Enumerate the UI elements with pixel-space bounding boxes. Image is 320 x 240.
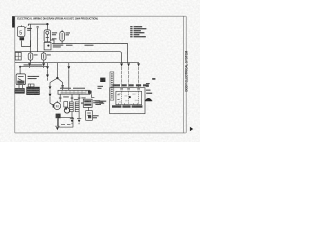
ECU pin label row <box>113 84 149 86</box>
motor M2 <box>64 108 69 113</box>
wire relay feed horizontal <box>20 67 47 74</box>
legend note text block <box>130 26 146 37</box>
label for R1 <box>52 32 57 39</box>
fuse F3 <box>41 52 46 63</box>
wire from A3 down <box>47 63 49 81</box>
wire hook from JB2 right <box>92 94 95 97</box>
wire vertical x30.5 <box>30 24 32 53</box>
connector arrow A8 <box>127 63 130 66</box>
wire center drop <box>56 63 58 78</box>
switch table S3 <box>75 102 79 112</box>
motor M1 <box>54 101 61 110</box>
connector blob under motor <box>56 114 61 119</box>
wire Y right branch <box>57 78 64 90</box>
wire from R1 right <box>51 40 54 44</box>
small wire labels in cluster <box>63 96 85 100</box>
label right of box <box>93 115 99 118</box>
wire vertical x37.6 with connector ticks <box>37 27 39 52</box>
title text <box>17 16 98 20</box>
ECU vertical label strip <box>110 72 114 100</box>
connector arrow A6a <box>49 86 52 89</box>
node dot in ECU <box>129 96 131 98</box>
label above relay feed wire <box>24 64 43 65</box>
label for S1 <box>27 28 32 31</box>
connector blob under S1 <box>20 37 25 40</box>
fuse F1 <box>60 30 65 44</box>
node junction dot <box>46 23 48 25</box>
relay R1 <box>44 30 51 42</box>
wire ECU drop 2 <box>128 67 130 88</box>
faint ECU internals <box>118 93 138 102</box>
connector ticks under R2 <box>19 85 23 89</box>
connector arrow A5 <box>67 66 70 69</box>
ECU pin marks <box>120 88 140 90</box>
wire H2 long horizontal <box>15 52 122 63</box>
wire H1 long horizontal <box>52 44 128 63</box>
ignition switch S1 <box>18 25 27 36</box>
connector arrow A1 <box>28 63 31 68</box>
scan grain overlay <box>0 0 200 142</box>
page frame border <box>15 16 186 133</box>
junction bar JB2 <box>58 90 90 94</box>
switch table S2 <box>69 102 73 112</box>
connector blob left of ECU <box>100 78 105 82</box>
junction block JB <box>15 52 21 60</box>
label for R2 <box>28 76 39 79</box>
small label F <box>152 78 155 80</box>
ground G1 <box>55 118 59 126</box>
ground blob GB1 <box>145 98 153 101</box>
connector arrow A9 <box>137 63 140 66</box>
fuse F2 <box>28 53 33 63</box>
box under D1 <box>86 107 93 120</box>
small switch box in cluster <box>64 102 68 107</box>
connector arrow A3 <box>46 66 49 69</box>
connector arrow A2 <box>42 63 45 68</box>
wire label left of ECU <box>99 101 106 104</box>
ECU inner wires <box>122 91 139 104</box>
connector arrow A7 <box>120 63 123 66</box>
ground G3 <box>70 112 74 119</box>
wire dot to relay R1 <box>46 24 48 30</box>
labels right of ECU <box>146 83 152 94</box>
label near hook <box>95 102 103 105</box>
connector arrow A6b <box>49 94 52 97</box>
ground G4 <box>77 112 81 119</box>
ECU inner box <box>116 91 142 104</box>
junction table T2 <box>26 87 39 95</box>
label above JB2 <box>60 88 85 89</box>
connector box under R1 <box>44 42 51 50</box>
label for F3 <box>47 54 51 55</box>
sub box in cluster bottom <box>59 117 73 127</box>
wire from A6 to motor <box>50 83 54 106</box>
wire from A5 down to bar <box>68 63 70 90</box>
solenoid D1 <box>83 99 92 107</box>
plus mark <box>81 102 83 104</box>
connector arrow A4 <box>46 75 49 78</box>
connector ticks on drop wires <box>59 97 81 98</box>
wire H3 bus <box>15 62 139 64</box>
label strip on H1 <box>53 45 94 48</box>
ECU outer box <box>110 88 145 114</box>
label for F2 <box>34 54 38 55</box>
label for D1 <box>93 100 100 103</box>
wire Y left branch <box>50 78 57 82</box>
page thumb tick <box>190 127 193 131</box>
wire ECU drop 3 <box>138 63 140 88</box>
label for F1 <box>66 32 70 35</box>
wires below JB2 <box>60 94 79 102</box>
small box above T2 <box>28 84 34 87</box>
relay R2 <box>16 74 26 85</box>
node Y junction <box>56 77 58 79</box>
wire U from S1 to fuse column <box>22 40 31 46</box>
junction table T1 <box>14 88 24 94</box>
left spine black bar <box>12 16 14 27</box>
ECU bottom label strip <box>112 105 142 107</box>
wire top horizontal <box>28 24 47 26</box>
wire ECU drop 1 <box>121 67 123 88</box>
tiny labels under blob <box>98 86 104 89</box>
node dot relay feed <box>19 66 21 68</box>
